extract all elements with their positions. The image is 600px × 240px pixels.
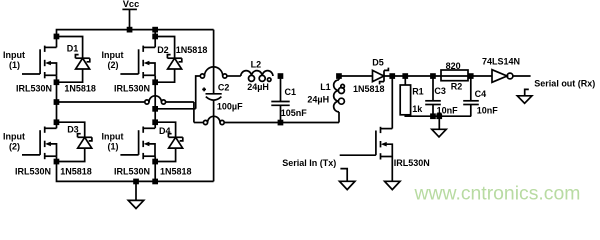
wire D1 anode [57, 69, 83, 82]
svg-text:820: 820 [446, 61, 461, 71]
junction dot C1 top [278, 73, 284, 79]
wire Q2 drain to top rail [154, 30, 156, 48]
svg-text:IRL530N: IRL530N [15, 167, 51, 177]
label D2 [157, 45, 169, 55]
junction dot ground stub [133, 179, 139, 185]
svg-text:C3: C3 [434, 86, 446, 96]
junction dot R1 top [402, 73, 408, 79]
transistor Q4 (IRL530N, Input 1, bottom-right) [120, 127, 155, 160]
svg-text:1k: 1k [412, 104, 423, 114]
svg-text:Serial out (Rx): Serial out (Rx) [534, 78, 595, 88]
svg-text:10nF: 10nF [477, 106, 499, 116]
capacitor C4 10nF [463, 76, 498, 116]
svg-text:D4: D4 [159, 126, 171, 136]
svg-text:D1: D1 [67, 44, 79, 54]
wire D2 anode [155, 69, 174, 82]
junction dot Tx drain tap [389, 73, 395, 79]
junction dot D1 cathode tap [54, 34, 60, 40]
junction dot Q1 source / D1 anode [54, 79, 60, 85]
junction dot D3 cathode tap [54, 119, 60, 125]
diode D3 1N5818 [78, 134, 92, 148]
wire C2 bottom to ground rail [213, 100, 215, 181]
svg-text:C1: C1 [285, 87, 297, 97]
wire D4 anode [155, 148, 175, 161]
resistor R2 820 [441, 61, 468, 92]
label Input (1) for Q4 [102, 132, 124, 152]
label IRL530N Q1 [16, 84, 52, 94]
wire D2 cathode [155, 37, 174, 59]
capacitor C2 100uF electrolytic [202, 83, 243, 112]
label D3 [67, 125, 79, 135]
wire node A to Q3 drain [56, 102, 58, 128]
power net Vcc [122, 0, 139, 30]
label Input (1) for Q1 [3, 50, 25, 70]
wire Vcc top rail [57, 30, 214, 37]
junction dot Q2 source / D2 anode [152, 79, 158, 85]
junction dot Q2 drain on top rail [152, 27, 158, 33]
wire D1 cathode [57, 37, 83, 59]
wire Q1 source down to node A [56, 75, 58, 102]
inverter U1 74LS14N [482, 57, 531, 83]
label 1N5818 D3 [60, 167, 92, 177]
ground serial out net [517, 89, 532, 103]
svg-text:Input: Input [102, 132, 124, 142]
wire C1 bottom lead [280, 105, 282, 122]
svg-text:(2): (2) [9, 141, 20, 151]
wire signal line hop over C2 wire [199, 67, 241, 78]
svg-text:C2: C2 [218, 83, 230, 93]
resistor R1 1k [400, 76, 424, 115]
label Input (2) for Q3 [3, 132, 25, 152]
svg-text:100µF: 100µF [217, 101, 243, 111]
svg-text:IRL530N: IRL530N [16, 84, 52, 94]
wire hop node A over Q2 leg [145, 96, 166, 104]
junction dot node A [54, 99, 60, 105]
label 1N5818 D4 [160, 167, 192, 177]
wire R1 bottom to RC ground rail [405, 115, 471, 116]
svg-text:1N5818: 1N5818 [160, 167, 192, 177]
svg-text:IRL530N: IRL530N [114, 167, 150, 177]
svg-text:1N5818: 1N5818 [64, 84, 96, 94]
junction dot D4 cathode tap [152, 119, 158, 125]
svg-text:24µH: 24µH [247, 82, 269, 92]
label 1N5818 D2 [176, 45, 208, 55]
wire L1 top lead [338, 76, 340, 80]
label IRL530N Q5 [394, 158, 430, 168]
label Input (2) for Q2 [102, 50, 124, 70]
svg-text:D5: D5 [372, 57, 384, 67]
wire D4 cathode [155, 122, 175, 137]
junction dot C1 bottom [278, 120, 284, 126]
wire node A down to return line [193, 102, 195, 123]
svg-text:D2: D2 [157, 45, 169, 55]
svg-text:74LS14N: 74LS14N [482, 57, 520, 67]
junction dot L1 top [336, 73, 342, 79]
junction dot C3 bottom [430, 113, 436, 119]
svg-text:105nF: 105nF [281, 108, 308, 118]
label IRL530N Q4 [114, 167, 150, 177]
diode D1 1N5818 [75, 55, 89, 69]
svg-text:www.cntronics.com: www.cntronics.com [414, 182, 581, 204]
junction dot Q4 source / D4 anode [152, 159, 158, 165]
inductor L1 24uH [307, 80, 344, 112]
ground Serial In net [340, 169, 355, 190]
capacitor C3 10nF [425, 76, 458, 116]
svg-text:L1: L1 [320, 82, 331, 92]
inductor L2 24uH [241, 59, 273, 92]
label D4 [159, 126, 171, 136]
svg-text:Input: Input [3, 50, 25, 60]
svg-text:D3: D3 [67, 125, 79, 135]
svg-text:L2: L2 [251, 59, 262, 69]
svg-text:R1: R1 [412, 86, 424, 96]
junction dot Q4 source on bottom rail [152, 179, 158, 185]
wire L1 node to D5 anode [339, 75, 373, 77]
wire node A rail [57, 101, 194, 103]
transistor Q3 (IRL530N, Input 2, bottom-left) [22, 127, 57, 160]
wire C1 top lead [280, 76, 282, 102]
diode D2 1N5818 [167, 55, 181, 69]
wire top rail down to C2 [213, 30, 215, 94]
wire Q3 source to bottom rail [57, 156, 214, 181]
svg-text:R2: R2 [451, 82, 463, 92]
wire Q2 source down through node A hop to node B [154, 75, 156, 128]
svg-text:Vcc: Vcc [123, 0, 140, 9]
junction dot R2 right / C4 top [468, 73, 474, 79]
wire Tx drain [391, 76, 393, 129]
svg-text:24µH: 24µH [307, 94, 329, 104]
svg-text:IRL530N: IRL530N [394, 158, 430, 168]
junction dot Vcc stem on top rail [127, 27, 133, 33]
wire return line with hop over C2 ground wire [194, 116, 339, 124]
label IRL530N Q3 [15, 167, 51, 177]
watermark www.cntronics.com [414, 182, 581, 204]
label D1 [67, 44, 79, 54]
diode D5 1N5818 [353, 57, 388, 94]
transistor Q1 (IRL530N, Input 1, top-left) [22, 46, 57, 79]
svg-text:Input: Input [3, 132, 25, 142]
svg-text:C4: C4 [475, 89, 487, 99]
junction dot RC ground stub [436, 113, 442, 119]
wire D3 cathode [57, 122, 85, 137]
wire L1 bottom to return line [338, 112, 340, 123]
svg-text:Input: Input [102, 50, 124, 60]
svg-text:IRL530N: IRL530N [114, 84, 150, 94]
svg-text:(1): (1) [9, 60, 20, 70]
wire node B to riser [155, 108, 196, 110]
ground Tx source [385, 181, 400, 189]
svg-text:1N5818: 1N5818 [60, 167, 92, 177]
wire Tx source to ground [391, 157, 393, 182]
wire D3 anode [57, 148, 85, 161]
label 1N5818 D1 [64, 84, 96, 94]
svg-text:1N5818: 1N5818 [176, 45, 208, 55]
wire Q4 source to bottom rail [154, 156, 156, 181]
diode D4 1N5818 [168, 134, 182, 148]
svg-text:Serial In (Tx): Serial In (Tx) [282, 158, 336, 168]
wire Q1 drain to top rail [56, 37, 58, 48]
label Serial In (Tx) [282, 158, 336, 168]
transistor Q2 (IRL530N, Input 2, top-right) [120, 46, 155, 79]
junction dot C3 top [430, 73, 436, 79]
ground bridge [128, 200, 143, 208]
junction dot Q3 source / D3 anode [54, 159, 60, 165]
junction dot D2 cathode tap [152, 34, 158, 40]
wire node B riser up to signal line [196, 76, 199, 109]
svg-text:(2): (2) [108, 60, 119, 70]
svg-text:1N5818: 1N5818 [353, 84, 385, 94]
wire D5 cathode to detector [384, 75, 492, 77]
junction dot node B [152, 106, 158, 112]
capacitor C1 105nF [271, 87, 307, 118]
label Serial out (Rx) [534, 78, 595, 88]
ground RC detector [432, 116, 446, 137]
transistor Q5 Tx IRL530N [340, 127, 393, 160]
svg-text:(1): (1) [108, 141, 119, 151]
wire bottom rail ground stub [135, 181, 137, 200]
label IRL530N Q2 [114, 84, 150, 94]
